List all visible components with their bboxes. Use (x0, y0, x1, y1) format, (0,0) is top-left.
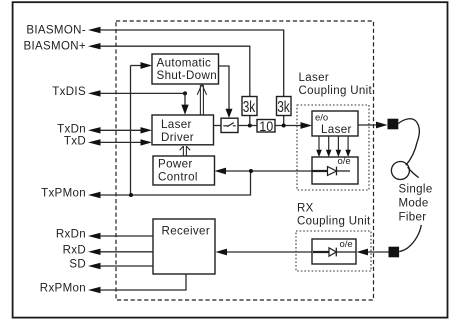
fiber loop (391, 162, 409, 180)
arrowhead into Automatic Shut-Down (141, 62, 153, 69)
svg-text:Laser: Laser (321, 123, 352, 136)
svg-text:TxDn: TxDn (57, 123, 86, 135)
double-line arrow Laser Driver to Shut-Down (197, 84, 206, 115)
svg-text:RxPMon: RxPMon (40, 283, 86, 295)
wire into Automatic Shut-Down (131, 65, 142, 67)
box RX o/e (312, 239, 356, 264)
svg-text:TxD: TxD (64, 135, 86, 147)
arrowhead TxD left (88, 139, 101, 145)
arrowhead TxPMon (88, 192, 101, 198)
box Laser Driver (152, 115, 214, 145)
wire TxPMon (100, 171, 251, 195)
svg-text:o/e: o/e (338, 156, 351, 167)
fiber loop tail (408, 167, 419, 177)
arrowhead BIASMON- (88, 27, 101, 33)
svg-text:RxD: RxD (63, 244, 86, 256)
photodiode monitor (312, 170, 328, 172)
wire Automatic Shut-Down to switch (219, 66, 230, 110)
svg-text:e/o: e/o (315, 113, 328, 124)
arrowhead to TX fiber connector (376, 122, 388, 129)
box 10 (257, 120, 275, 133)
node at 3k left (248, 124, 252, 128)
Laser Coupling Unit dotted box (297, 105, 369, 190)
fiber curve to RX connector (399, 225, 421, 252)
arrowhead BIASMON+ (88, 43, 101, 49)
wire Laser Driver to switch (214, 125, 222, 127)
arrowhead TxDIS (88, 90, 101, 96)
svg-text:o/e: o/e (340, 239, 353, 250)
svg-text:BIASMON+: BIASMON+ (23, 41, 86, 53)
photodiode RX (313, 251, 329, 253)
arrowhead RxPMon (88, 287, 101, 293)
svg-text:Fiber: Fiber (399, 212, 427, 224)
svg-text:BIASMON-: BIASMON- (26, 24, 86, 36)
box Receiver (153, 219, 215, 274)
fiber curve from TX connector (398, 119, 419, 166)
arrowhead SD (88, 263, 101, 269)
arrowhead RxD (88, 249, 101, 255)
arrowhead into RX o/e (357, 249, 369, 256)
svg-text:Control: Control (158, 171, 198, 184)
svg-text:RX: RX (297, 203, 314, 215)
svg-text:Receiver: Receiver (162, 224, 211, 237)
svg-text:Automatic: Automatic (157, 57, 212, 70)
resistor 3k left (242, 97, 257, 116)
wire 10 box to laser (275, 125, 301, 127)
switch box (221, 118, 238, 132)
svg-text:SD: SD (69, 259, 86, 271)
node TxPMon junction (129, 193, 133, 197)
svg-text:3k: 3k (277, 99, 290, 116)
arrowhead into e/o Laser (301, 122, 313, 129)
wire RX connector to o/e (368, 251, 389, 253)
wire TxDn (100, 129, 142, 131)
svg-text:RxDn: RxDn (56, 228, 86, 240)
svg-text:Laser: Laser (161, 118, 192, 131)
4 arrows laser to monitor diode (319, 136, 348, 151)
module boundary (dashed box) (116, 21, 374, 300)
arrowhead RxDn (88, 233, 101, 239)
wire TxD (100, 141, 142, 143)
wire RX o/e to Receiver (227, 251, 313, 253)
wire TxDIS down to Laser Driver (184, 93, 186, 105)
node feedback junction (249, 169, 253, 173)
box Power Control (153, 156, 215, 185)
resistor 3k right (277, 97, 292, 116)
wire BIASMON- to 3k right (100, 30, 284, 97)
wire 3k left stub (249, 116, 251, 126)
svg-text:TxPMon: TxPMon (41, 188, 86, 200)
arrowhead TxD into Laser Driver (141, 139, 153, 145)
node at 3k right (282, 124, 286, 128)
arrowhead into switch top (226, 109, 233, 118)
svg-text:Coupling Unit: Coupling Unit (297, 216, 371, 228)
svg-text:Driver: Driver (161, 131, 194, 144)
wire BIASMON+ to 3k left (100, 46, 250, 96)
RX fiber connector square (389, 247, 400, 258)
double-line arrow Power Control to Laser Driver (180, 146, 191, 156)
svg-text:Mode: Mode (399, 198, 429, 210)
wire RxD (100, 251, 153, 253)
svg-text:Coupling Unit: Coupling Unit (299, 85, 373, 97)
svg-text:TxDIS: TxDIS (52, 86, 86, 98)
svg-text:10: 10 (259, 118, 273, 134)
wire monitor photodiode to Power Control (226, 170, 313, 172)
wire 3k right stub (283, 116, 285, 126)
arrowhead into Power Control (215, 168, 227, 175)
wire RxDn (100, 235, 153, 237)
box Automatic Shut-Down (152, 54, 219, 84)
arrowhead TxDn into Laser Driver (141, 127, 153, 133)
wire vertical branch x=130.5 (130, 66, 132, 196)
RX Coupling Unit dotted box (296, 231, 371, 271)
wire SD (100, 265, 153, 267)
svg-text:Power: Power (158, 158, 193, 171)
box monitor o/e (312, 157, 358, 184)
TX fiber connector square (388, 119, 399, 130)
arrowhead into Receiver (216, 249, 228, 256)
wire TxDIS (100, 92, 185, 94)
wire RxPMon from Receiver bottom (100, 274, 186, 290)
svg-text:Laser: Laser (299, 72, 330, 84)
svg-text:3k: 3k (243, 99, 256, 116)
svg-text:Single: Single (399, 184, 433, 196)
svg-text:Shut-Down: Shut-Down (157, 69, 218, 82)
node TxDIS junction (183, 91, 187, 95)
arrowhead TxDn left (88, 127, 101, 133)
box e/o Laser (312, 111, 358, 136)
wire switch to 10 box (238, 125, 257, 127)
arrowhead into Laser Driver top (181, 105, 188, 115)
wire e/o Laser output (358, 124, 377, 126)
